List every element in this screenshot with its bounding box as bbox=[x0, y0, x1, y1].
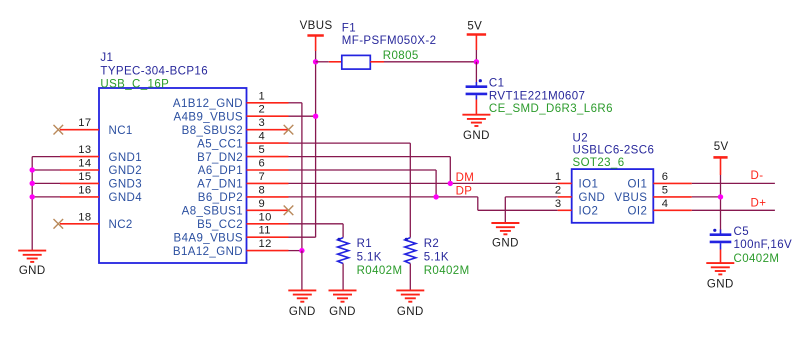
junction 5V fuse C1 bbox=[474, 59, 479, 64]
capacitor C5 bottom lead bbox=[720, 243, 722, 249]
label GND left bbox=[19, 265, 46, 277]
J1 pin 4 stub bbox=[247, 142, 289, 144]
svg-text:D+: D+ bbox=[751, 198, 767, 210]
ground symbol below R2 bbox=[396, 290, 424, 301]
wire pin4 CC1 horizontal bbox=[289, 142, 411, 144]
J1 pin 4 name A5_CC1 bbox=[197, 138, 243, 150]
svg-text:7: 7 bbox=[259, 171, 266, 183]
resistor R2 pin1 dot bbox=[405, 238, 408, 241]
J1 pin 2 name A4B9_VBUS bbox=[174, 111, 243, 123]
capacitor C1 top lead bbox=[475, 82, 477, 86]
J1 pin 7 name A7_DN1 bbox=[197, 179, 243, 191]
junction DM node bbox=[448, 181, 453, 186]
svg-text:1: 1 bbox=[259, 90, 266, 102]
wire GND3 branch bbox=[32, 182, 60, 184]
svg-text:A4B9_VBUS: A4B9_VBUS bbox=[174, 111, 243, 123]
svg-text:J1: J1 bbox=[100, 52, 113, 64]
label GND below R2 bbox=[397, 306, 424, 318]
J1 pin 9 number bbox=[259, 198, 266, 210]
svg-text:9: 9 bbox=[259, 198, 266, 210]
svg-text:17: 17 bbox=[78, 117, 91, 129]
svg-text:A6_DP1: A6_DP1 bbox=[198, 165, 243, 177]
connector J1 TYPEC-304-BCP16 symbol box bbox=[99, 88, 247, 263]
capacitor C5 pin1 dot bbox=[713, 229, 716, 232]
svg-text:SOT23_6: SOT23_6 bbox=[573, 157, 625, 169]
wire DP pin8 horizontal bbox=[289, 196, 478, 198]
R2 footprint R0402M bbox=[424, 265, 470, 277]
svg-text:GND: GND bbox=[579, 192, 606, 204]
svg-text:TYPEC-304-BCP16: TYPEC-304-BCP16 bbox=[100, 65, 208, 77]
svg-text:13: 13 bbox=[78, 144, 91, 156]
label DP bbox=[456, 186, 473, 198]
J1 pin 13 name GND1 bbox=[109, 152, 143, 164]
wire CC1 vertical to R2 bbox=[409, 143, 411, 238]
junction VBUS fuse tap bbox=[313, 59, 318, 64]
label GND below C1 bbox=[463, 130, 490, 142]
J1 pin 8 number bbox=[259, 184, 266, 196]
ground symbol below U2 bbox=[491, 223, 519, 234]
svg-text:GND: GND bbox=[329, 306, 356, 318]
label D- bbox=[751, 170, 764, 182]
J1 pin 11 number bbox=[259, 225, 271, 237]
wire junction to C1 bbox=[475, 62, 477, 82]
J1 pin 7 stub bbox=[247, 182, 289, 184]
J1 pin 1 stub bbox=[247, 102, 289, 104]
wire pin6 DP1 horizontal bbox=[289, 169, 437, 171]
svg-text:B4A9_VBUS: B4A9_VBUS bbox=[174, 232, 243, 244]
U2 pin 1 stub bbox=[558, 182, 572, 184]
svg-text:R0805: R0805 bbox=[383, 50, 419, 62]
J1 pin 10 number bbox=[259, 211, 272, 223]
label DM bbox=[456, 172, 475, 184]
J1 pin 8 stub bbox=[247, 196, 289, 198]
U2 value USBLC6-2SC6 bbox=[573, 145, 655, 157]
svg-text:D-: D- bbox=[751, 170, 764, 182]
C1 footprint CE_SMD_D6R3_L6R6 bbox=[489, 103, 613, 115]
wire pin1 to GND bus bbox=[289, 102, 302, 104]
R1 reference designator bbox=[357, 238, 373, 250]
F1 value MF-PSFM050X-2 bbox=[342, 35, 437, 47]
C5 reference designator bbox=[734, 226, 750, 238]
J1 pin 6 stub bbox=[247, 169, 289, 171]
J1 pin 15 name GND3 bbox=[109, 179, 143, 191]
J1 pin 16 number bbox=[78, 184, 91, 196]
J1 pin 5 name B7_DN2 bbox=[197, 152, 243, 164]
svg-text:GND3: GND3 bbox=[109, 179, 143, 191]
label VBUS bbox=[300, 20, 333, 32]
U2 pin 5 stub bbox=[653, 196, 692, 198]
label D+ bbox=[751, 198, 767, 210]
J1 pin 12 stub bbox=[247, 250, 289, 252]
capacitor C1 pin1 dot bbox=[479, 79, 482, 82]
svg-text:B8_SBUS2: B8_SBUS2 bbox=[182, 125, 243, 137]
wire VBUS to fuse F1 bbox=[316, 61, 329, 63]
J1 pin 12 name B1A12_GND bbox=[173, 246, 243, 258]
svg-text:5.1K: 5.1K bbox=[424, 252, 449, 264]
J1 pin 6 number bbox=[259, 158, 266, 170]
label GND below R1 bbox=[329, 306, 356, 318]
svg-text:USBLC6-2SC6: USBLC6-2SC6 bbox=[573, 145, 655, 157]
svg-text:8: 8 bbox=[259, 184, 266, 196]
svg-text:B1A12_GND: B1A12_GND bbox=[173, 246, 243, 258]
U2 pin 1 name IO1 bbox=[579, 179, 599, 191]
junction pin12 GND bbox=[299, 248, 304, 253]
R1 footprint R0402M bbox=[357, 265, 403, 277]
svg-text:1: 1 bbox=[555, 171, 562, 183]
svg-text:VBUS: VBUS bbox=[300, 20, 333, 32]
svg-text:12: 12 bbox=[259, 238, 272, 250]
wire DP to U2 pin3 bbox=[478, 209, 558, 211]
J1 pin 17 number bbox=[78, 117, 91, 129]
wire pin10 CC2 horizontal bbox=[289, 223, 344, 225]
wire U2 pin5 to 5V bbox=[692, 196, 721, 198]
svg-text:C0402M: C0402M bbox=[734, 253, 780, 265]
svg-text:5V: 5V bbox=[467, 20, 482, 32]
J1 pin 9 name A8_SBUS1 bbox=[182, 206, 243, 218]
svg-text:B5_CC2: B5_CC2 bbox=[197, 219, 243, 231]
J1 pin 17 name NC1 bbox=[109, 125, 133, 137]
svg-text:C1: C1 bbox=[489, 77, 505, 89]
svg-text:IO1: IO1 bbox=[579, 179, 599, 191]
C1 reference designator bbox=[489, 77, 505, 89]
svg-text:RVT1E221M0607: RVT1E221M0607 bbox=[489, 91, 585, 103]
wire CC2 vertical to R1 bbox=[342, 224, 344, 238]
wire DP jog down bbox=[477, 197, 479, 210]
svg-text:5V: 5V bbox=[714, 141, 729, 153]
svg-text:R2: R2 bbox=[424, 238, 440, 250]
wire C1 to ground bbox=[475, 100, 477, 115]
wire DM pin7 to U2 pin1 bbox=[289, 182, 558, 184]
svg-text:6: 6 bbox=[259, 158, 266, 170]
fuse F1 left lead bbox=[329, 61, 342, 63]
power symbol VBUS bbox=[307, 36, 323, 52]
J1 pin 13 stub bbox=[60, 156, 99, 158]
ground symbol below C1 bbox=[462, 115, 490, 126]
label GND below J1 bbox=[289, 306, 316, 318]
J1 pin 1 number bbox=[259, 90, 266, 102]
wire GND bus down bbox=[301, 251, 303, 291]
wire pin12 to GND bus bbox=[289, 250, 302, 252]
ic U2 USBLC6-2SC6 symbol box bbox=[572, 169, 654, 223]
C5 value 100nF,16V bbox=[734, 239, 793, 251]
U2 pin 5 name VBUS bbox=[614, 192, 647, 204]
wire 5V right vertical bbox=[720, 175, 722, 230]
svg-text:U2: U2 bbox=[573, 132, 589, 144]
junction pin2 VBUS bbox=[313, 114, 318, 119]
ground symbol below R1 bbox=[329, 290, 357, 301]
J1 footprint USB_C_16P bbox=[100, 79, 169, 91]
wire 5V to junction bbox=[475, 50, 477, 62]
C5 footprint C0402M bbox=[734, 253, 780, 265]
U2 pin 4 number bbox=[662, 198, 669, 210]
J1 pin 18 number bbox=[78, 211, 91, 223]
J1 pin 2 stub bbox=[247, 115, 289, 117]
wire VBUS vertical bus bbox=[315, 51, 317, 237]
U2 footprint SOT23_6 bbox=[573, 157, 625, 169]
J1 pin 10 stub bbox=[247, 223, 289, 225]
J1 pin 16 stub bbox=[60, 196, 99, 198]
ground symbol below C5 bbox=[706, 263, 734, 274]
J1 pin 17 stub bbox=[60, 129, 99, 131]
svg-text:R0402M: R0402M bbox=[424, 265, 470, 277]
U2 pin 3 name IO2 bbox=[579, 206, 599, 218]
J1 pin 1 name A1B12_GND bbox=[173, 98, 243, 110]
J1 value TYPEC-304-BCP16 bbox=[100, 65, 208, 77]
svg-text:16: 16 bbox=[78, 184, 91, 196]
power symbol 5V right bbox=[713, 157, 727, 175]
J1 pin 16 name GND4 bbox=[109, 192, 143, 204]
wire GND1 to left bus bbox=[32, 156, 60, 158]
svg-text:6: 6 bbox=[662, 171, 669, 183]
svg-text:OI2: OI2 bbox=[628, 206, 648, 218]
capacitor C1 plates bbox=[466, 87, 488, 94]
wire GND vertical bus pins 1-12 bbox=[301, 103, 303, 251]
ground symbol below J1 bbox=[288, 290, 316, 301]
J1 pin 14 stub bbox=[60, 169, 99, 171]
U2 pin 2 number bbox=[555, 184, 562, 196]
J1 pin 9 stub bbox=[247, 209, 289, 211]
svg-text:GND: GND bbox=[492, 237, 519, 249]
U2 pin 6 stub bbox=[653, 182, 692, 184]
J1 pin 12 number bbox=[259, 238, 272, 250]
U2 reference designator bbox=[573, 132, 589, 144]
svg-text:GND: GND bbox=[397, 306, 424, 318]
svg-text:A8_SBUS1: A8_SBUS1 bbox=[182, 206, 243, 218]
J1 pin 8 name B6_DP2 bbox=[198, 192, 243, 204]
svg-text:B7_DN2: B7_DN2 bbox=[197, 152, 243, 164]
resistor R2 body bbox=[405, 238, 416, 264]
svg-text:15: 15 bbox=[78, 171, 91, 183]
svg-text:A5_CC1: A5_CC1 bbox=[197, 138, 243, 150]
J1 pin 10 name B5_CC2 bbox=[197, 219, 243, 231]
svg-text:NC2: NC2 bbox=[109, 219, 133, 231]
svg-text:R1: R1 bbox=[357, 238, 373, 250]
svg-text:4: 4 bbox=[259, 131, 266, 143]
no-connect X on J1 pin 18 bbox=[54, 219, 64, 229]
svg-text:B6_DP2: B6_DP2 bbox=[198, 192, 243, 204]
power symbol 5V top bbox=[467, 35, 486, 51]
no-connect X on J1 pin 3 bbox=[284, 125, 294, 135]
svg-text:5: 5 bbox=[259, 144, 266, 156]
ground symbol left bbox=[18, 251, 46, 262]
svg-text:USB_C_16P: USB_C_16P bbox=[100, 79, 169, 91]
U2 pin 4 name OI2 bbox=[628, 206, 648, 218]
junction on GND3 bbox=[30, 181, 35, 186]
svg-text:A1B12_GND: A1B12_GND bbox=[173, 98, 243, 110]
svg-text:GND4: GND4 bbox=[109, 192, 143, 204]
svg-text:3: 3 bbox=[259, 117, 266, 129]
svg-text:CE_SMD_D6R3_L6R6: CE_SMD_D6R3_L6R6 bbox=[489, 103, 613, 115]
J1 pin 6 name A6_DP1 bbox=[198, 165, 243, 177]
label 5V right bbox=[714, 141, 729, 153]
U2 pin 3 number bbox=[555, 198, 562, 210]
wire pin5 DN2 horizontal bbox=[289, 156, 451, 158]
label GND below U2 bbox=[492, 237, 519, 249]
fuse F1 right lead bbox=[370, 61, 384, 63]
wire pin2 to VBUS bus bbox=[289, 115, 316, 117]
no-connect X on J1 pin 9 bbox=[284, 206, 294, 216]
fuse F1 body bbox=[342, 55, 371, 69]
R2 value 5.1K bbox=[424, 252, 449, 264]
svg-text:OI1: OI1 bbox=[628, 179, 648, 191]
junction DP node bbox=[433, 194, 438, 199]
J1 pin 2 number bbox=[259, 104, 266, 116]
svg-text:IO2: IO2 bbox=[579, 206, 599, 218]
U2 pin 3 stub bbox=[558, 209, 572, 211]
junction on GND2 bbox=[30, 167, 35, 172]
wire left GND vertical bus bbox=[31, 157, 33, 251]
svg-text:3: 3 bbox=[555, 198, 562, 210]
capacitor C5 plates bbox=[710, 235, 732, 242]
wire U2 pin2 to ground bbox=[505, 197, 557, 223]
label GND below C5 bbox=[707, 279, 734, 291]
U2 pin 4 stub bbox=[653, 209, 692, 211]
J1 pin 15 number bbox=[78, 171, 91, 183]
svg-text:4: 4 bbox=[662, 198, 669, 210]
svg-text:R0402M: R0402M bbox=[357, 265, 403, 277]
svg-text:GND: GND bbox=[289, 306, 316, 318]
J1 pin 4 number bbox=[259, 131, 266, 143]
svg-text:DM: DM bbox=[456, 172, 475, 184]
svg-text:GND: GND bbox=[707, 279, 734, 291]
svg-text:GND: GND bbox=[463, 130, 490, 142]
resistor R1 pin1 dot bbox=[337, 238, 340, 241]
J1 pin 13 number bbox=[78, 144, 91, 156]
wire pin11 to VBUS bus bbox=[289, 236, 316, 238]
capacitor C1 bottom lead bbox=[475, 95, 477, 99]
wire R1 to ground bbox=[342, 264, 344, 291]
J1 pin 18 name NC2 bbox=[109, 219, 133, 231]
svg-text:GND1: GND1 bbox=[109, 152, 143, 164]
junction on GND4 bbox=[30, 194, 35, 199]
svg-text:GND: GND bbox=[19, 265, 46, 277]
J1 pin 15 stub bbox=[60, 182, 99, 184]
svg-text:18: 18 bbox=[78, 211, 91, 223]
U2 pin 6 name OI1 bbox=[628, 179, 648, 191]
svg-text:MF-PSFM050X-2: MF-PSFM050X-2 bbox=[342, 35, 437, 47]
capacitor C5 top lead bbox=[720, 230, 722, 235]
svg-text:2: 2 bbox=[555, 184, 562, 196]
svg-text:10: 10 bbox=[259, 211, 272, 223]
svg-text:A7_DN1: A7_DN1 bbox=[197, 179, 243, 191]
U2 pin 1 number bbox=[555, 171, 562, 183]
C1 value RVT1E221M0607 bbox=[489, 91, 585, 103]
J1 reference designator bbox=[100, 52, 113, 64]
J1 pin 5 stub bbox=[247, 156, 289, 158]
J1 pin 18 stub bbox=[60, 223, 99, 225]
svg-text:C5: C5 bbox=[734, 226, 750, 238]
wire D- net bbox=[692, 182, 775, 184]
U2 pin 5 number bbox=[662, 184, 669, 196]
J1 pin 7 number bbox=[259, 171, 266, 183]
U2 pin 6 number bbox=[662, 171, 669, 183]
R1 value 5.1K bbox=[357, 252, 382, 264]
F1 reference designator bbox=[342, 22, 356, 34]
svg-text:5: 5 bbox=[662, 184, 669, 196]
svg-text:GND2: GND2 bbox=[109, 165, 143, 177]
junction 5V VBUS pin5 bbox=[718, 194, 723, 199]
svg-text:5.1K: 5.1K bbox=[357, 252, 382, 264]
wire DP1 vertical to DP bbox=[435, 170, 437, 197]
wire D+ net bbox=[692, 209, 775, 211]
wire DN2 vertical to DM bbox=[449, 157, 451, 184]
R2 reference designator bbox=[424, 238, 440, 250]
wire fuse to 5V node bbox=[384, 61, 476, 63]
no-connect X on J1 pin 17 bbox=[54, 125, 64, 135]
U2 pin 2 name GND bbox=[579, 192, 606, 204]
U2 pin 2 stub bbox=[558, 196, 572, 198]
svg-text:11: 11 bbox=[259, 225, 271, 237]
J1 pin 11 stub bbox=[247, 236, 289, 238]
svg-text:NC1: NC1 bbox=[109, 125, 133, 137]
svg-text:2: 2 bbox=[259, 104, 266, 116]
J1 pin 14 name GND2 bbox=[109, 165, 143, 177]
wire GND4 branch bbox=[32, 196, 60, 198]
F1 footprint R0805 bbox=[383, 50, 419, 62]
J1 pin 3 name B8_SBUS2 bbox=[182, 125, 243, 137]
wire R2 to ground bbox=[409, 264, 411, 291]
wire GND2 branch bbox=[32, 169, 60, 171]
svg-text:VBUS: VBUS bbox=[614, 192, 647, 204]
label 5V top bbox=[467, 20, 482, 32]
J1 pin 3 number bbox=[259, 117, 266, 129]
svg-text:14: 14 bbox=[78, 158, 91, 170]
svg-text:F1: F1 bbox=[342, 22, 356, 34]
resistor R1 body bbox=[338, 238, 349, 264]
J1 pin 3 stub bbox=[247, 129, 289, 131]
wire C5 to ground bbox=[720, 250, 722, 264]
J1 pin 14 number bbox=[78, 158, 91, 170]
svg-text:DP: DP bbox=[456, 186, 473, 198]
svg-text:100nF,16V: 100nF,16V bbox=[734, 239, 793, 251]
J1 pin 5 number bbox=[259, 144, 266, 156]
J1 pin 11 name B4A9_VBUS bbox=[174, 232, 243, 244]
